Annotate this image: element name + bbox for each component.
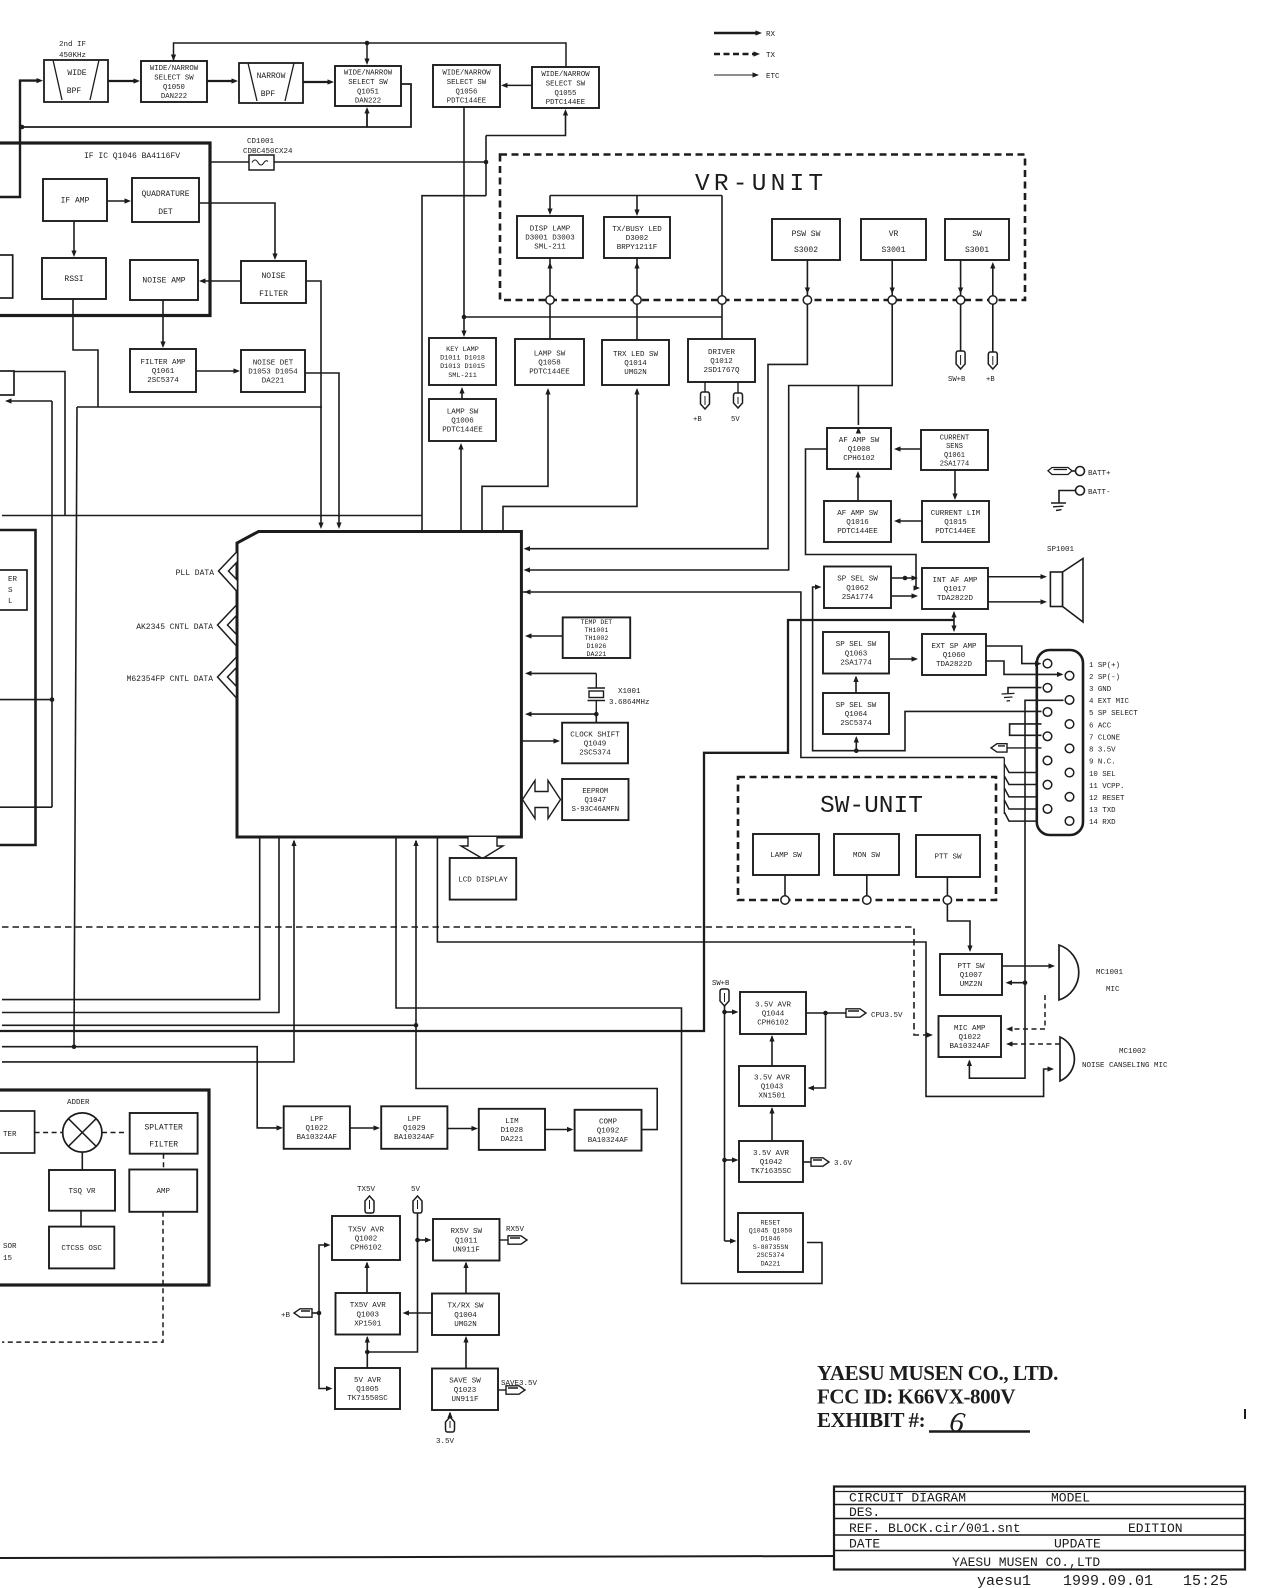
svg-text:MC1002: MC1002 xyxy=(1119,1048,1146,1056)
wire Q1056 bottom to key lamp xyxy=(463,107,465,334)
wire left stub y807 xyxy=(0,806,52,808)
microphone MC1001 xyxy=(1059,945,1079,1000)
svg-text:PDTC144EE: PDTC144EE xyxy=(935,528,976,536)
svg-text:2SC5374: 2SC5374 xyxy=(840,720,872,728)
svg-text:TSQ VR: TSQ VR xyxy=(68,1188,96,1196)
wire driver junction riser xyxy=(721,196,723,297)
external speaker amp Q1060 xyxy=(922,634,986,675)
svg-text:TH1002: TH1002 xyxy=(585,635,609,642)
svg-text:WIDE/NARROW: WIDE/NARROW xyxy=(541,71,590,79)
svg-text:9 N.C.: 9 N.C. xyxy=(1089,759,1116,767)
svg-text:Q1042: Q1042 xyxy=(760,1159,783,1167)
svg-text:COMP: COMP xyxy=(599,1119,618,1127)
svg-text:MON SW: MON SW xyxy=(853,852,881,860)
speaker SP1001 xyxy=(1050,559,1083,623)
ground symbol battery xyxy=(1051,503,1066,511)
connector pin 9 N.C. xyxy=(1043,756,1052,765)
svg-text:SP1001: SP1001 xyxy=(1047,546,1075,554)
wire fuse to BATT+ xyxy=(1072,470,1076,472)
svg-text:WIDE: WIDE xyxy=(67,69,86,78)
svg-text:BA10324AF: BA10324AF xyxy=(297,1134,338,1142)
legend RX arrow xyxy=(714,32,756,34)
svg-text:Q1012: Q1012 xyxy=(710,358,733,366)
wire LIM to COMP xyxy=(545,1129,571,1131)
svg-text:UMZ2N: UMZ2N xyxy=(960,981,983,989)
terminal BATT+ xyxy=(1076,467,1085,476)
RX5V switch Q1011 xyxy=(433,1219,500,1261)
TX tone unit block xyxy=(0,1090,209,1285)
svg-text:Q1008: Q1008 xyxy=(848,446,871,454)
connector CPU3.5V xyxy=(846,1009,866,1017)
svg-text:CPH6102: CPH6102 xyxy=(350,1245,382,1253)
svg-text:VR-UNIT: VR-UNIT xyxy=(695,171,827,198)
wide/narrow select switch Q1056 xyxy=(433,65,500,107)
wire to pin 14 RXD xyxy=(1004,812,1061,821)
partial block TER at left edge xyxy=(0,1111,35,1153)
wire +B to Q1005 xyxy=(319,1313,330,1389)
connector pin 10 SEL xyxy=(1065,768,1074,777)
svg-text:BRPY1211F: BRPY1211F xyxy=(617,244,658,252)
svg-text:EXHIBIT #:: EXHIBIT #: xyxy=(817,1408,925,1432)
svg-text:UN911F: UN911F xyxy=(453,1246,480,1254)
svg-text:LAMP SW: LAMP SW xyxy=(534,350,566,358)
limiter D1028 xyxy=(479,1109,545,1150)
svg-text:Q1049: Q1049 xyxy=(584,741,607,749)
wire into disp lamp top xyxy=(549,196,551,213)
bus arrow CPU to LCD xyxy=(461,837,503,859)
svg-text:D1053 D1054: D1053 D1054 xyxy=(248,369,298,377)
svg-text:AF AMP SW: AF AMP SW xyxy=(839,437,880,445)
noise detector D1053 D1054 xyxy=(241,350,305,392)
connector pin 12 RESET xyxy=(1065,793,1074,802)
svg-text:10 SEL: 10 SEL xyxy=(1089,771,1116,779)
svg-text:Q1060: Q1060 xyxy=(943,652,966,660)
connector SW+B xyxy=(956,351,965,369)
svg-text:15:25: 15:25 xyxy=(1183,1573,1228,1588)
3.5V AVR Q1044 xyxy=(740,992,806,1034)
partial block at left edge B xyxy=(0,371,14,395)
wire to pin 11 VCPP xyxy=(1004,776,1042,785)
wire key-lamp node to driver node xyxy=(464,316,722,318)
svg-text:SELECT SW: SELECT SW xyxy=(154,75,194,83)
wire mon sw to junction xyxy=(866,875,868,896)
wire left output with arrow xyxy=(8,400,52,402)
PTT switch Q1007 xyxy=(940,954,1002,995)
svg-text:TK71550SC: TK71550SC xyxy=(347,1395,388,1403)
wire driver +B stub xyxy=(704,382,706,392)
svg-text:2SA1774: 2SA1774 xyxy=(940,461,969,469)
wide/narrow select switch Q1050 xyxy=(141,61,207,102)
low pass filter Q1022 xyxy=(284,1106,350,1149)
wire RSSI bus to CPU node xyxy=(77,406,322,408)
VR volume S3001 xyxy=(861,219,926,260)
svg-text:S-80735SN: S-80735SN xyxy=(753,1244,789,1251)
TX5V AVR Q1003 xyxy=(336,1293,401,1335)
svg-text:CURRENT LIM: CURRENT LIM xyxy=(931,510,981,518)
wire IF IC to CD1001 xyxy=(210,161,249,163)
svg-text:yaesu1: yaesu1 xyxy=(977,1573,1031,1588)
wire sw s3001 to junction xyxy=(960,260,962,296)
wire adder to splatter dashed xyxy=(102,1132,126,1134)
save switch Q1023 xyxy=(432,1369,498,1411)
svg-text:UPDATE: UPDATE xyxy=(1054,1537,1101,1552)
wire ptt net to Q1007 xyxy=(947,904,970,950)
wire CPU clock loop upper xyxy=(528,672,596,674)
svg-text:11 VCPP.: 11 VCPP. xyxy=(1089,783,1124,791)
wire junction to SW+B connector xyxy=(960,304,962,351)
wire Q1044 to CPU3.5V xyxy=(806,1012,846,1014)
svg-text:XP1501: XP1501 xyxy=(354,1320,382,1328)
wire SW+B to Q1042 xyxy=(725,1159,737,1161)
svg-text:2SC5374: 2SC5374 xyxy=(757,1252,785,1259)
svg-text:LPF: LPF xyxy=(408,1116,422,1124)
wire ext sp amp to pin1 xyxy=(986,646,1038,664)
wire Q1042 to 3.6V xyxy=(803,1161,811,1163)
connector SAVE3.5V xyxy=(498,1389,506,1391)
svg-text:D1026: D1026 xyxy=(587,643,607,650)
connector +B driver xyxy=(701,392,710,409)
svg-text:D3002: D3002 xyxy=(626,235,649,243)
svg-text:Q1056: Q1056 xyxy=(456,88,478,96)
wire lamp feed bus xyxy=(550,195,722,197)
reset circuit Q1045 Q1050 xyxy=(738,1213,803,1272)
wire splatter to amp dashed xyxy=(163,1154,165,1170)
svg-text:AMP: AMP xyxy=(156,1188,170,1196)
wire left vertical bus C xyxy=(74,407,77,1047)
svg-text:DAN222: DAN222 xyxy=(161,93,187,101)
connector pin 5 SP SELECT xyxy=(1043,708,1052,717)
exhibit underline xyxy=(929,1430,1030,1432)
terminal BATT- xyxy=(1076,486,1085,495)
svg-text:D1013 D1015: D1013 D1015 xyxy=(440,363,485,371)
wire 5V to RX5V sw xyxy=(418,1239,430,1241)
connector 3.5V save xyxy=(446,1417,455,1432)
TRX LED switch Q1014 xyxy=(602,340,669,385)
wire noise det to CPU xyxy=(305,373,339,526)
svg-text:LAMP SW: LAMP SW xyxy=(447,408,479,416)
bus arrow M62354FP CNTL DATA xyxy=(218,657,237,698)
wire mc1002 to mic amp dashed xyxy=(1010,1043,1060,1045)
connector 5V xyxy=(413,1196,422,1213)
svg-text:CPU3.5V: CPU3.5V xyxy=(871,1012,903,1020)
svg-text:MIC: MIC xyxy=(1106,986,1120,994)
svg-text:SPLATTER: SPLATTER xyxy=(144,1124,183,1133)
svg-text:KEY LAMP: KEY LAMP xyxy=(446,346,479,354)
svg-text:IF IC Q1046 BA4116FV: IF IC Q1046 BA4116FV xyxy=(84,152,180,161)
wire ter to adder dashed xyxy=(35,1132,63,1134)
low pass filter Q1029 xyxy=(381,1106,447,1149)
svg-text:4 EXT MIC: 4 EXT MIC xyxy=(1089,698,1129,706)
svg-text:FILTER: FILTER xyxy=(259,290,288,299)
svg-text:3.5V: 3.5V xyxy=(436,1438,455,1446)
svg-text:QUADRATURE: QUADRATURE xyxy=(141,190,189,199)
svg-text:FILTER AMP: FILTER AMP xyxy=(140,359,186,367)
svg-text:3.5V AVR: 3.5V AVR xyxy=(754,1074,791,1082)
wire top select bus xyxy=(174,43,567,67)
svg-text:Q1016: Q1016 xyxy=(846,519,869,527)
svg-text:Q1029: Q1029 xyxy=(403,1125,426,1133)
wire narrow BPF to Q1051 xyxy=(303,81,331,83)
svg-text:S3002: S3002 xyxy=(794,246,818,255)
svg-text:WIDE/NARROW: WIDE/NARROW xyxy=(150,65,199,73)
svg-text:SW+B: SW+B xyxy=(948,376,966,384)
svg-text:DA221: DA221 xyxy=(587,651,607,658)
svg-text:PSW SW: PSW SW xyxy=(792,230,821,239)
clock shift Q1049 xyxy=(562,723,628,764)
wire pin8 3.5V xyxy=(1007,747,1042,749)
svg-text:D3001 D3003: D3001 D3003 xyxy=(525,235,575,243)
wire +B to sw s3001 xyxy=(992,304,994,352)
svg-text:D1028: D1028 xyxy=(501,1127,524,1135)
current limiter Q1015 xyxy=(922,501,989,542)
wire left stub y699 xyxy=(0,699,52,701)
quadrature detector xyxy=(132,178,199,222)
svg-text:DA221: DA221 xyxy=(501,1136,524,1144)
IF IC Q1046 BA4116FV block xyxy=(0,143,210,316)
speaker select switch Q1064 xyxy=(823,693,889,734)
svg-text:RESET: RESET xyxy=(761,1219,781,1226)
connector pin 7 CLONE xyxy=(1043,732,1052,741)
svg-text:CTCSS OSC: CTCSS OSC xyxy=(61,1245,102,1253)
wire Q1006 to key lamp xyxy=(461,389,463,399)
svg-text:SELECT SW: SELECT SW xyxy=(348,79,388,87)
svg-text:BATT+: BATT+ xyxy=(1088,470,1111,478)
svg-text:Q1055: Q1055 xyxy=(555,90,577,98)
wire CD1001 to Q1055 bottom xyxy=(486,112,566,136)
svg-text:3.5V AVR: 3.5V AVR xyxy=(753,1150,790,1158)
svg-text:LAMP SW: LAMP SW xyxy=(770,852,802,860)
splatter filter xyxy=(130,1113,198,1154)
svg-text:Q1011: Q1011 xyxy=(455,1237,478,1245)
svg-text:UN911F: UN911F xyxy=(451,1396,478,1404)
microphone amp Q1022 xyxy=(939,1016,1002,1057)
RSSI block xyxy=(42,258,106,299)
wire noise filter to CPU xyxy=(306,281,321,526)
svg-text:Q1058: Q1058 xyxy=(538,360,561,368)
connector pin 11 VCPP. xyxy=(1043,780,1052,789)
svg-text:15: 15 xyxy=(3,1255,13,1263)
svg-text:PTT SW: PTT SW xyxy=(957,963,985,971)
wire CPU to Q1006 xyxy=(460,445,462,532)
svg-text:BPF: BPF xyxy=(261,90,276,99)
svg-text:X1001: X1001 xyxy=(618,688,641,696)
svg-text:Q1023: Q1023 xyxy=(454,1387,477,1395)
wire IF AMP to quadrature det xyxy=(107,200,128,202)
wire Q1004 feed from save xyxy=(465,1338,467,1369)
wire Q1042 to Q1043 xyxy=(771,1109,773,1142)
svg-text:2SC5374: 2SC5374 xyxy=(147,377,179,385)
svg-text:CPH6102: CPH6102 xyxy=(843,455,875,463)
wire junction to driver xyxy=(721,304,723,339)
svg-text:2 SP(-): 2 SP(-) xyxy=(1089,674,1120,682)
svg-text:S: S xyxy=(8,587,13,595)
AF amp switch Q1016 xyxy=(824,501,891,542)
CPU main block xyxy=(237,532,521,838)
wire current sens to Q1008 xyxy=(897,448,921,450)
svg-text:SML-211: SML-211 xyxy=(448,372,477,380)
wire filter amp to noise det xyxy=(196,370,237,372)
svg-text:Q1007: Q1007 xyxy=(960,972,983,980)
svg-text:TEMP DET: TEMP DET xyxy=(581,619,613,626)
svg-text:UMG2N: UMG2N xyxy=(624,369,647,377)
wire adder to tsq vr xyxy=(81,1152,83,1170)
TSQ VR block xyxy=(49,1170,115,1211)
svg-text:BATT-: BATT- xyxy=(1088,489,1111,497)
svg-text:SP SEL SW: SP SEL SW xyxy=(836,702,877,710)
connector pin 6 ACC xyxy=(1065,720,1074,729)
wire +B arrow into switch xyxy=(992,264,994,296)
title block table xyxy=(834,1487,1245,1570)
svg-text:Q1014: Q1014 xyxy=(624,360,647,368)
svg-text:DA221: DA221 xyxy=(761,1260,781,1267)
AF amp switch Q1008 xyxy=(827,428,891,469)
wire 3.5V to save sw xyxy=(449,1413,451,1417)
wire to pin 13 TXD xyxy=(1004,800,1038,809)
wire pin5 sp select net xyxy=(813,587,1042,751)
svg-text:5V: 5V xyxy=(411,1186,421,1194)
temperature detector TH1001 TH1002 xyxy=(563,617,631,658)
svg-text:Q1061: Q1061 xyxy=(944,452,965,460)
wire CPU to clock shift xyxy=(521,740,557,742)
wire branch into Q1051 top xyxy=(366,43,368,63)
wire into tx/busy led top xyxy=(636,196,638,214)
svg-text:DISP LAMP: DISP LAMP xyxy=(530,225,571,233)
wire SW+B to Q1044 xyxy=(725,1011,737,1013)
wire vr net to CPU xyxy=(526,304,892,570)
svg-text:TER: TER xyxy=(3,1131,17,1139)
svg-text:RX5V: RX5V xyxy=(506,1226,525,1234)
wire serial bundle spine xyxy=(1003,758,1005,815)
wire Q1062 out lower xyxy=(891,595,915,597)
svg-text:6 ACC: 6 ACC xyxy=(1089,722,1112,730)
svg-text:Q1043: Q1043 xyxy=(761,1084,784,1092)
wire quadrature det to noise filter xyxy=(199,203,275,257)
wire LPF to LPF xyxy=(350,1127,377,1129)
svg-text:PDTC144EE: PDTC144EE xyxy=(447,98,486,106)
svg-text:DATE: DATE xyxy=(849,1537,880,1552)
svg-text:+B: +B xyxy=(986,376,995,384)
svg-text:SW+B: SW+B xyxy=(712,980,730,988)
wire RSSI output jog xyxy=(73,299,98,407)
svg-text:YAESU MUSEN CO., LTD.: YAESU MUSEN CO., LTD. xyxy=(817,1361,1058,1385)
wire int af amp to speaker lower xyxy=(988,601,1043,603)
svg-text:+B: +B xyxy=(281,1312,291,1320)
wire Q1016 to Q1008 xyxy=(857,473,859,501)
svg-text:Q1045 Q1050: Q1045 Q1050 xyxy=(749,1228,793,1235)
connector TX5V xyxy=(365,1196,374,1213)
svg-text:13 TXD: 13 TXD xyxy=(1089,807,1116,815)
wide/narrow select switch Q1055 xyxy=(532,67,599,108)
wire left vertical bus A xyxy=(51,401,53,807)
svg-text:M62354FP CNTL DATA: M62354FP CNTL DATA xyxy=(127,675,214,684)
svg-text:NOISE: NOISE xyxy=(261,272,285,281)
svg-text:2SC5374: 2SC5374 xyxy=(579,750,611,758)
wire to pin 10 SEL xyxy=(1004,764,1063,773)
CTCSS oscillator xyxy=(49,1227,114,1269)
svg-text:MODEL: MODEL xyxy=(1051,1491,1090,1506)
wire CPU pin to left bus 2 xyxy=(2,837,279,1013)
speaker select switch Q1063 xyxy=(823,632,889,674)
svg-text:TX: TX xyxy=(766,52,776,60)
wire temp det to CPU xyxy=(528,635,563,637)
svg-text:WIDE/NARROW: WIDE/NARROW xyxy=(344,70,393,78)
monitor switch xyxy=(834,834,899,875)
wire thick audio feed to amps xyxy=(953,613,955,621)
wire ptt sw to junction xyxy=(946,877,948,896)
svg-text:1999.09.01: 1999.09.01 xyxy=(1063,1573,1153,1588)
svg-text:12 RESET: 12 RESET xyxy=(1089,795,1125,803)
svg-text:Q1015: Q1015 xyxy=(944,519,967,527)
svg-text:DA221: DA221 xyxy=(262,378,285,386)
svg-text:Q1063: Q1063 xyxy=(845,650,868,658)
compressor Q1092 xyxy=(575,1110,642,1151)
connector 5V driver xyxy=(734,393,743,408)
wire CPU to mic mute xyxy=(437,837,1051,1096)
svg-text:Q1022: Q1022 xyxy=(958,1034,981,1042)
svg-text:8 3.5V: 8 3.5V xyxy=(1089,747,1116,755)
wire vr s3001 to junction xyxy=(891,260,893,296)
wire Q1002 to TX5V xyxy=(367,1215,369,1216)
svg-text:REF. BLOCK.cir/001.snt: REF. BLOCK.cir/001.snt xyxy=(849,1521,1021,1536)
wire Q1064 to Q1063 xyxy=(855,677,857,693)
svg-text:BA10324AF: BA10324AF xyxy=(949,1043,990,1051)
wire SW+B to reset xyxy=(725,1240,735,1242)
svg-text:TX5V AVR: TX5V AVR xyxy=(350,1302,387,1310)
svg-text:TH1001: TH1001 xyxy=(585,627,609,634)
svg-text:CURRENT: CURRENT xyxy=(940,434,969,442)
AMP block xyxy=(129,1170,197,1212)
svg-text:TX5V: TX5V xyxy=(357,1186,376,1194)
svg-text:Q1050: Q1050 xyxy=(163,84,185,92)
connector +B vr-unit xyxy=(988,352,997,369)
svg-text:DET: DET xyxy=(158,208,173,217)
internal AF amp Q1017 xyxy=(922,568,988,609)
connector pin 2 SP(-) xyxy=(1065,671,1074,680)
svg-text:ADDER: ADDER xyxy=(67,1099,90,1107)
svg-text:TRX LED SW: TRX LED SW xyxy=(613,351,659,359)
VR-UNIT dashed enclosure xyxy=(500,155,1025,301)
lamp switch sw-unit xyxy=(753,834,819,875)
svg-text:IF AMP: IF AMP xyxy=(61,197,90,206)
svg-text:2SA1774: 2SA1774 xyxy=(842,594,874,602)
svg-text:TDA2822D: TDA2822D xyxy=(937,595,974,603)
current sensor Q1061 xyxy=(921,430,988,470)
wire CPU3.5V node to Q1043 xyxy=(810,1013,826,1088)
wire 5V rail xyxy=(367,1213,417,1352)
svg-text:XN1501: XN1501 xyxy=(758,1093,786,1101)
svg-text:Q1022: Q1022 xyxy=(306,1125,329,1133)
accessory connector shell xyxy=(1037,650,1083,835)
svg-text:Q1003: Q1003 xyxy=(356,1311,379,1319)
svg-text:TX/BUSY LED: TX/BUSY LED xyxy=(612,226,662,234)
stray mark above title block xyxy=(1244,1409,1246,1419)
svg-text:Q1044: Q1044 xyxy=(762,1011,785,1019)
svg-text:L: L xyxy=(8,598,13,606)
svg-text:Q1005: Q1005 xyxy=(356,1386,379,1394)
svg-text:RSSI: RSSI xyxy=(64,275,83,284)
wire ext mic to mic amp xyxy=(969,983,1025,1078)
wire CD1001 output net xyxy=(274,161,486,163)
svg-text:UMG2N: UMG2N xyxy=(454,1321,477,1329)
connector pin 1 SP(+) xyxy=(1043,659,1052,668)
ceramic discriminator CD1001 xyxy=(249,155,274,170)
svg-text:DES.: DES. xyxy=(849,1505,880,1520)
wire left bus to LPF xyxy=(2,1047,280,1128)
connector 3.5V pin8 xyxy=(991,744,1007,752)
wire current sens to current lim xyxy=(954,470,956,497)
svg-text:5 SP SELECT: 5 SP SELECT xyxy=(1089,710,1138,718)
wire Q1050 to narrow BPF xyxy=(207,80,235,82)
